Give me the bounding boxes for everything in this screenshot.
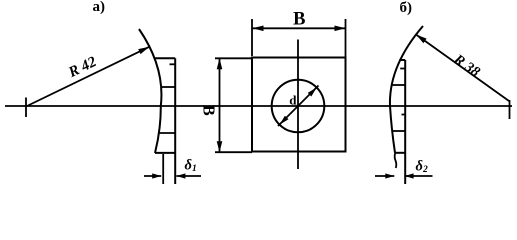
svg-text:б): б): [400, 0, 413, 16]
arrowhead B left top: [217, 58, 223, 69]
dimension B top: dimension line: [252, 27, 346, 29]
washer a: top edge: [155, 57, 176, 59]
dimension R38 leader line: [416, 35, 509, 102]
arrowhead delta1 right: [176, 173, 185, 178]
axis centerline: [5, 105, 512, 107]
washer a: right flat edge (extends down as delta1 extension): [174, 58, 176, 184]
arrowhead B top left: [253, 26, 264, 32]
washer a: bottom edge: [155, 152, 175, 154]
washer b: arc extension (wavy) as delta2 left extension: [395, 153, 397, 168]
dimension delta2 line left segment: [375, 175, 394, 177]
washer a: short tick upper right: [170, 63, 176, 65]
washer b: inner line lower: [392, 130, 405, 132]
svg-text:В: В: [200, 105, 219, 116]
svg-text:В: В: [293, 10, 305, 30]
dimension B left: extension line top: [215, 57, 252, 59]
arrowhead delta2 right: [405, 173, 414, 178]
dimension B left: extension line bottom: [215, 151, 252, 153]
washer b: short tick lower right: [402, 114, 406, 116]
dimension d: diagonal line in hole: [278, 86, 319, 127]
svg-text:d: d: [289, 93, 297, 108]
node: left center of curvature tick: [25, 98, 27, 118]
dimension delta1 line right segment: [176, 175, 201, 177]
washer a: spherical face arc R42: [139, 29, 161, 153]
arrowhead d lower-left: [280, 116, 289, 125]
washer a: inner line upper: [161, 86, 176, 88]
svg-text:а): а): [93, 0, 106, 15]
arrowhead B top right: [335, 26, 346, 32]
arrowhead delta2 left: [385, 173, 394, 178]
node: right center of curvature tick: [509, 100, 511, 119]
plate: vertical centerline: [297, 40, 299, 170]
arrowhead delta1 left: [152, 173, 161, 178]
dimension delta1 line left segment: [144, 175, 161, 177]
arrowhead d upper-right: [308, 88, 317, 97]
plate: hole circle: [272, 80, 325, 133]
washer b: top edge: [399, 59, 405, 61]
dimension B left: dimension line: [219, 58, 221, 152]
arrowhead R42: [138, 47, 149, 54]
washer b: spherical face arc R38: [390, 26, 423, 153]
washer b: inner line upper: [391, 84, 405, 86]
washer b: right flat edge (extends down as delta2 extension): [404, 60, 406, 184]
arrowhead B left bottom: [217, 141, 223, 152]
plate: square outline: [252, 58, 346, 152]
arrowhead R38: [416, 35, 427, 44]
washer b: bottom edge: [395, 152, 405, 154]
dimension delta1 extension line left: [162, 154, 164, 184]
dimension delta2 line right segment: [405, 175, 433, 177]
dimension B top: extension line right: [345, 19, 347, 57]
washer b: short tick upper right: [400, 68, 405, 70]
washer a: inner line lower: [159, 132, 175, 134]
dimension B top: extension line left: [251, 19, 253, 56]
dimension R42 leader line: [27, 47, 149, 106]
